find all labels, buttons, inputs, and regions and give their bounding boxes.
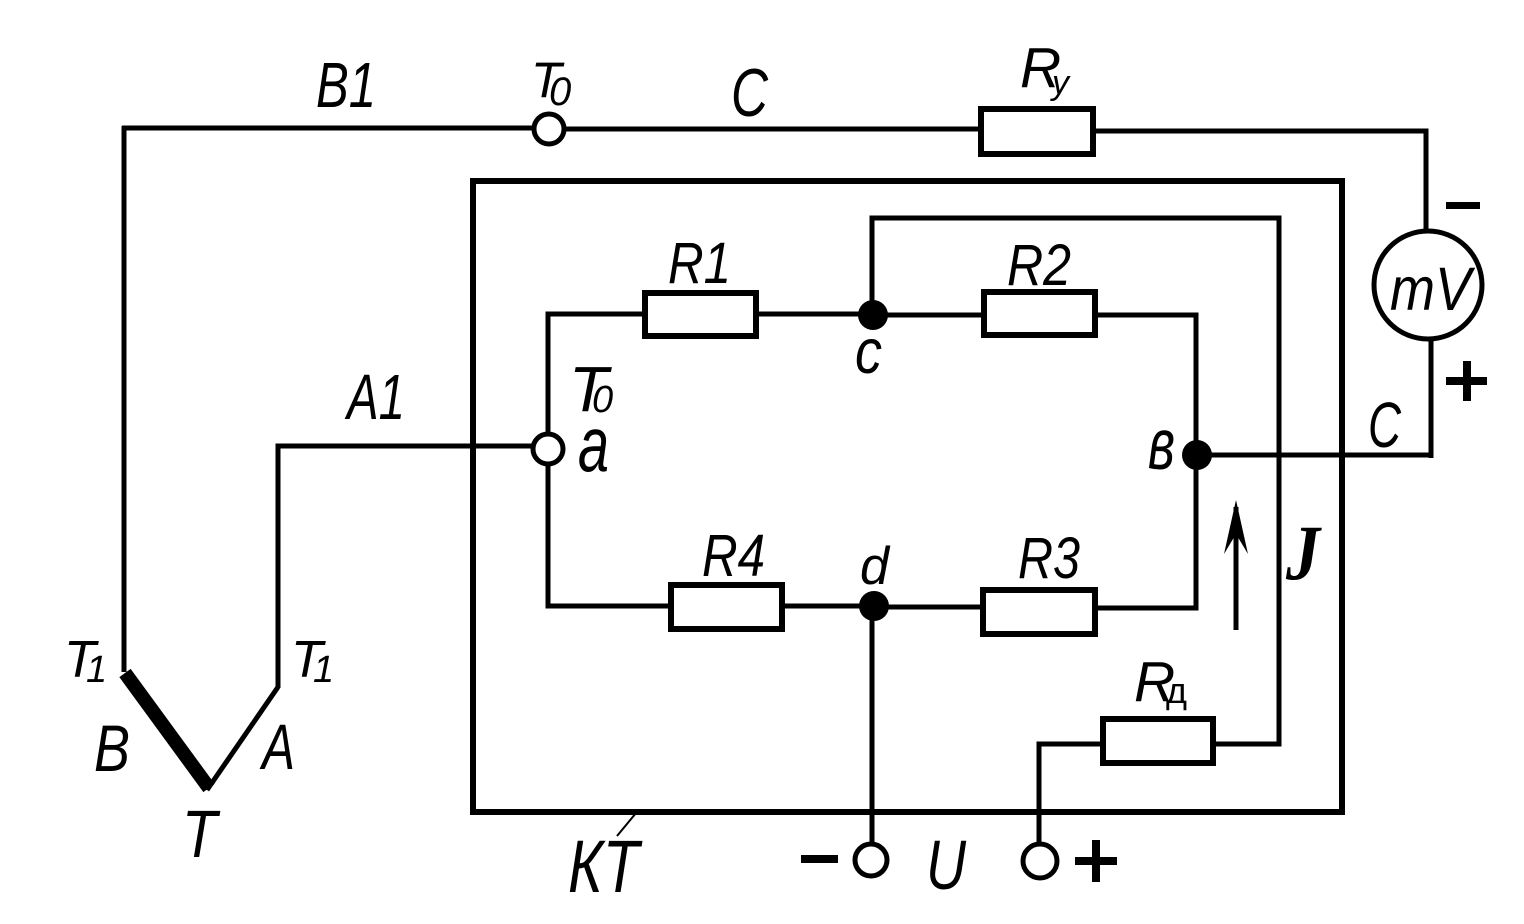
svg-text:в: в bbox=[1148, 405, 1175, 485]
svg-text:R4: R4 bbox=[702, 523, 765, 589]
terminal minus of U bbox=[855, 844, 887, 876]
wire node c up across and down to Rd bbox=[872, 218, 1279, 744]
svg-text:0: 0 bbox=[549, 70, 571, 114]
svg-text:T: T bbox=[182, 797, 220, 872]
svg-text:B1: B1 bbox=[316, 49, 376, 121]
wire R1 to node c bbox=[756, 312, 873, 317]
voltmeter mV bbox=[1374, 231, 1482, 339]
resistor R2 bbox=[984, 292, 1095, 335]
svg-text:a: a bbox=[578, 400, 609, 488]
svg-text:mV: mV bbox=[1390, 255, 1476, 323]
wire plus terminal up to Rd bbox=[1039, 744, 1103, 843]
svg-text:J: J bbox=[1285, 509, 1322, 596]
wire c to R2 bbox=[873, 313, 984, 318]
resistor Rd bbox=[1103, 719, 1213, 763]
KT box (comparison instrument enclosure) bbox=[473, 181, 1342, 812]
KT leader line bbox=[617, 813, 636, 836]
svg-text:c: c bbox=[855, 317, 882, 387]
svg-text:d: d bbox=[860, 537, 890, 596]
wire Ry to voltmeter bbox=[1093, 131, 1426, 233]
wire voltmeter bottom bbox=[1429, 339, 1434, 458]
svg-text:R2: R2 bbox=[1007, 233, 1071, 298]
wire R4 to node d bbox=[782, 604, 874, 609]
svg-text:U: U bbox=[926, 826, 966, 904]
wire B1 horizontal top bbox=[122, 126, 536, 131]
svg-text:A: A bbox=[259, 711, 295, 783]
current arrow bbox=[1234, 507, 1239, 630]
resistor R3 bbox=[983, 590, 1095, 634]
minus polarity mark bbox=[1446, 202, 1480, 209]
wire a down to R4 bbox=[548, 464, 671, 606]
svg-text:1: 1 bbox=[313, 649, 334, 691]
wire node v to C bbox=[1197, 453, 1433, 458]
svg-text:R3: R3 bbox=[1018, 526, 1080, 591]
terminal plus of U bbox=[1023, 844, 1057, 878]
node v junction dot bbox=[1182, 440, 1212, 470]
thermocouple electrode A thin with junction T bbox=[207, 687, 278, 790]
resistor R1 bbox=[645, 293, 756, 336]
thermocouple electrode B thick bbox=[125, 673, 209, 788]
wire A1 with electrode A vertical bbox=[278, 446, 536, 688]
terminal T0 top bbox=[534, 114, 564, 144]
node d junction dot bbox=[859, 591, 889, 621]
svg-text:y: y bbox=[1050, 64, 1071, 102]
svg-text:C: C bbox=[1368, 389, 1402, 461]
resistor R4 bbox=[671, 585, 782, 629]
svg-text:A1: A1 bbox=[344, 361, 405, 433]
wire left vertical lead to electrode B bbox=[122, 126, 127, 672]
wire node v down to R3 bbox=[1095, 455, 1196, 608]
plus sign at U bbox=[1075, 857, 1117, 865]
terminal T0 node a bbox=[533, 434, 563, 464]
svg-text:C: C bbox=[731, 55, 769, 131]
svg-text:R1: R1 bbox=[668, 231, 731, 296]
wire C top bbox=[565, 127, 981, 132]
plus polarity mark bbox=[1446, 377, 1487, 385]
resistor Ry bbox=[981, 109, 1093, 154]
svg-text:B: B bbox=[94, 711, 130, 785]
wire R3 to node d bbox=[874, 605, 983, 610]
svg-text:КТ: КТ bbox=[568, 825, 643, 908]
wire a up to R1 bbox=[548, 314, 645, 434]
node c junction dot bbox=[858, 300, 888, 330]
minus sign at U bbox=[801, 855, 838, 863]
wire node d down to minus terminal bbox=[870, 606, 875, 844]
svg-text:д: д bbox=[1166, 670, 1187, 711]
wire R2 to node v bbox=[1095, 315, 1196, 455]
svg-text:1: 1 bbox=[86, 649, 107, 691]
